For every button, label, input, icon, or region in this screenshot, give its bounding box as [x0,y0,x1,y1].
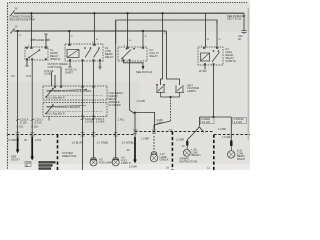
connector at end of bus1 [242,31,247,35]
fuse F2 [11,29,15,34]
bulb E4 [183,146,190,157]
connector symbols mid wires [16,34,72,121]
bulb E5 [228,146,235,158]
wire K3 bottom pin down [130,61,135,137]
section divider vertical right [213,135,215,171]
bulb E3 [150,152,158,162]
connector tick wire x93 [92,119,96,120]
wire drop x127.6 to relay K3 [127,13,129,47]
wire stub below box B [48,117,50,121]
section divider vertical left [57,135,59,171]
wire drop x205.5 to relay K4 [205,13,207,47]
bulb E2 [112,158,119,166]
wire K4 bottom pin to T split [213,65,215,117]
wire jog to bulb E3 [154,121,171,129]
thick wire segment left arrow [16,137,20,154]
connector block lamp right [230,141,233,147]
wire branch from K3 feed to lamp check [135,113,155,134]
wire T right branch [230,117,232,141]
wire drop x69.4 from bus2 to K2 [68,31,70,44]
wire T split bar [200,116,232,118]
fuse F1 [11,11,15,16]
label bottom text block [39,161,56,163]
pin labels above relays [19,33,222,47]
bus B+ (30) rail [14,12,244,14]
wire K2 pin to bulb E1 [93,61,95,158]
indicator pack S1 [156,84,165,97]
wire rail3 to bulb E2 [115,20,117,158]
wire K4 bottom left stub [204,65,206,70]
wire drop x162.6 to indicator pack [161,13,163,85]
control unit box B [43,103,107,118]
relay K2 box [65,44,103,70]
top dashed border [9,2,248,4]
thick wire segment mid arrow [133,137,137,164]
wire drop x17.6 from bus2 [17,31,19,137]
wire K2 bottom left stub [69,61,71,67]
bus 15 rail [14,30,166,32]
wire drop x217 to relay K4 right pin [216,20,218,47]
wire drop x143 from bus2 to K3 [142,31,144,47]
wire indicator pack output dotted [170,97,172,121]
wire drop x31.4 to relay K1 [30,13,32,47]
indicator pack S2 [161,85,185,97]
arrow below K3 [142,66,145,70]
wire K1 bottom pin B down [31,60,33,137]
rail 3 [116,20,217,44]
connector ticks at dividers [16,130,173,136]
wire x61 into cluster [60,67,62,86]
relay K3 box [118,47,147,61]
connector box bottom left [25,162,31,167]
connector block lamp left [186,141,188,146]
wire K1 bottom pin A [26,60,28,66]
connector tick wire x82 [81,119,85,120]
page edge shadow [247,8,249,140]
wire bus1 right corner to connector [243,13,245,30]
section divider vertical mid [171,132,173,171]
control unit box A [43,86,107,100]
label T split left [201,117,215,124]
section divider horizontal [8,132,251,135]
relay K4 box [198,47,223,65]
relay K1 box [25,47,48,60]
wire K3 bottom bar [124,61,144,66]
wire K2 pin to bottom lamp [82,61,84,170]
label T split right [233,117,247,124]
scan shading bands [8,14,250,32]
wire bus2 end corner to indicator pack [166,31,179,85]
bulb E1 [90,158,97,166]
thick wire segment K1 feed arrow [30,137,34,161]
wire T left branch with tent crossing [199,117,201,126]
wire x51 into cluster [51,72,53,86]
wire K1 top right stub [45,34,47,47]
left dashed border [7,3,9,170]
wire x55 into cluster [54,75,56,86]
wire drop x94.4 to relay K2 [93,13,95,44]
